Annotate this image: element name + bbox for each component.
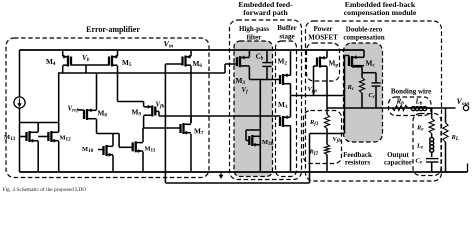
svg-text:Fig. 4 Schematic of the propos: Fig. 4 Schematic of the proposed LDO	[3, 186, 87, 193]
svg-text:Vfb: Vfb	[333, 136, 342, 144]
svg-text:Ce: Ce	[416, 158, 423, 166]
svg-text:Cc: Cc	[369, 92, 376, 100]
svg-text:capacitor: capacitor	[384, 159, 412, 167]
svg-text:Error-amplifier: Error-amplifier	[86, 25, 140, 34]
svg-text:compensation module: compensation module	[344, 8, 417, 17]
svg-text:Rf2: Rf2	[309, 149, 319, 157]
svg-text:Rf1: Rf1	[309, 119, 319, 127]
svg-text:Power: Power	[313, 25, 332, 33]
svg-text:stage: stage	[279, 33, 294, 41]
svg-text:Re: Re	[416, 125, 424, 133]
svg-text:M3b: M3b	[262, 139, 274, 147]
svg-text:Double-zero: Double-zero	[346, 26, 383, 34]
svg-text:Le: Le	[416, 143, 424, 151]
svg-text:filter: filter	[247, 34, 262, 42]
svg-text:MOSFET: MOSFET	[308, 34, 338, 42]
svg-text:High-pass: High-pass	[239, 25, 269, 33]
svg-text:resistors: resistors	[345, 159, 370, 167]
svg-text:M12: M12	[60, 135, 72, 143]
svg-text:Bonding wire: Bonding wire	[391, 88, 431, 96]
svg-text:M13: M13	[4, 134, 16, 142]
svg-text:RL: RL	[451, 134, 459, 142]
svg-text:Vfb: Vfb	[156, 102, 165, 110]
svg-text:Vgp: Vgp	[308, 86, 318, 94]
svg-text:M10: M10	[82, 146, 94, 154]
svg-text:M11: M11	[145, 146, 156, 154]
svg-text:compensation: compensation	[343, 34, 384, 42]
svg-text:forward path: forward path	[243, 8, 288, 17]
svg-text:Buffer: Buffer	[277, 24, 296, 32]
svg-text:Rc: Rc	[347, 84, 355, 92]
